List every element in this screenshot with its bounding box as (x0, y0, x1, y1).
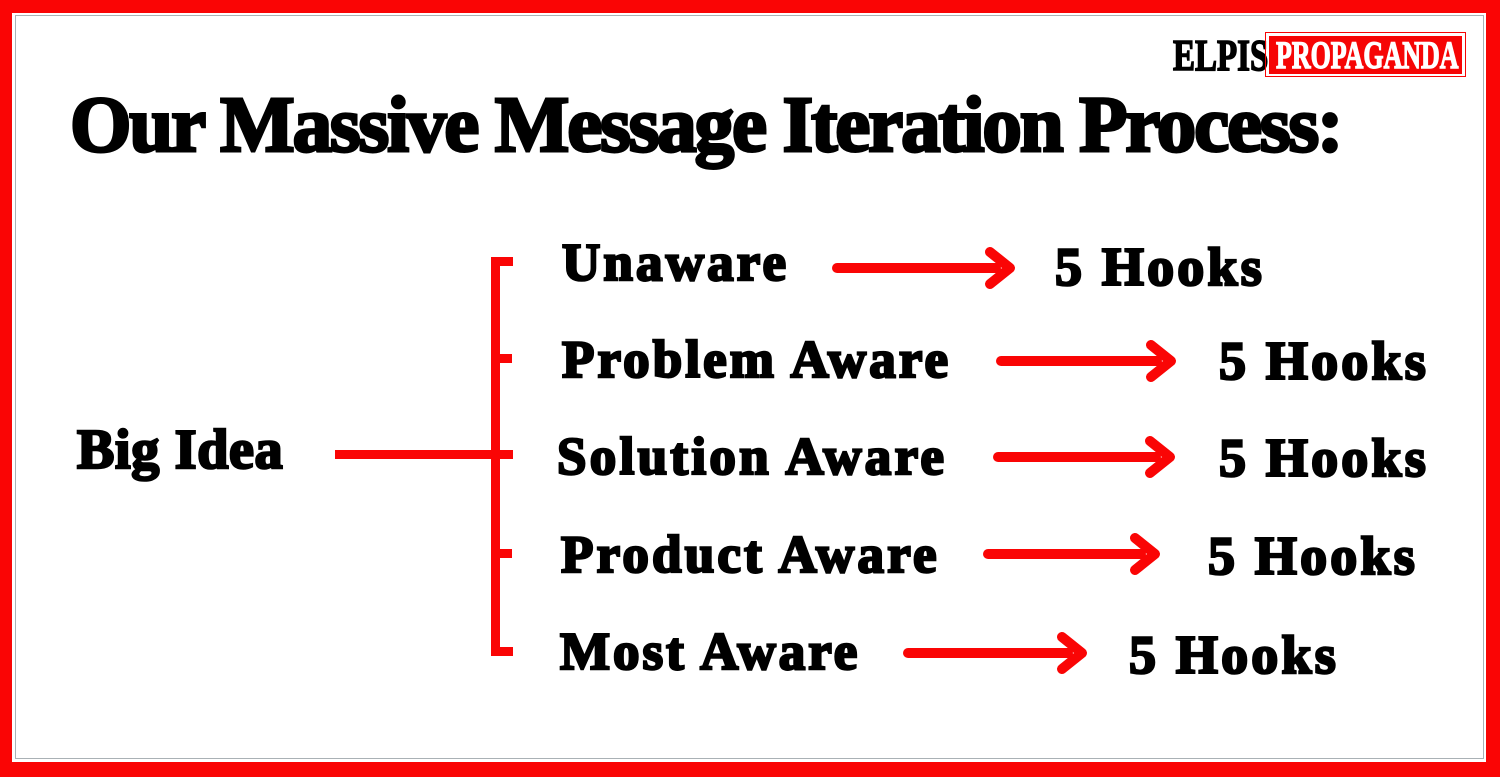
wire: bracket tick row4 (500, 549, 512, 558)
arrow row3: Solution Aware to 5 Hooks (998, 441, 1170, 473)
result label: 5 Hooks row2 (1219, 334, 1429, 388)
node label: Most Aware (560, 626, 860, 679)
logo badge PROPAGANDA (1265, 32, 1466, 77)
wire: bracket tick row1 (top) (500, 257, 513, 266)
logo text ELPIS (1173, 34, 1268, 78)
arrow row1: Unaware to 5 Hooks (837, 252, 1010, 284)
node label: Solution Aware (557, 431, 947, 484)
node label: Product Aware (561, 529, 940, 582)
node label: Problem Aware (562, 334, 951, 387)
arrow row5: Most Aware to 5 Hooks (908, 637, 1082, 669)
node label: Unaware (562, 237, 789, 290)
title: Our Massive Message Iteration Process: (70, 86, 1341, 165)
result label: 5 Hooks row1 (1055, 240, 1265, 294)
wire: Big Idea horizontal connector (335, 450, 513, 459)
arrow row2: Problem Aware to 5 Hooks (1001, 345, 1171, 377)
result label: 5 Hooks row5 (1129, 628, 1339, 682)
result label: 5 Hooks row4 (1208, 529, 1418, 583)
wire: vertical bracket spine (491, 257, 500, 656)
wire: bracket tick row2 (500, 354, 512, 363)
arrow row4: Product Aware to 5 Hooks (988, 538, 1155, 570)
node label: Big Idea (77, 422, 283, 478)
result label: 5 Hooks row3 (1219, 431, 1429, 485)
wire: bracket tick row5 (bottom) (500, 647, 513, 656)
